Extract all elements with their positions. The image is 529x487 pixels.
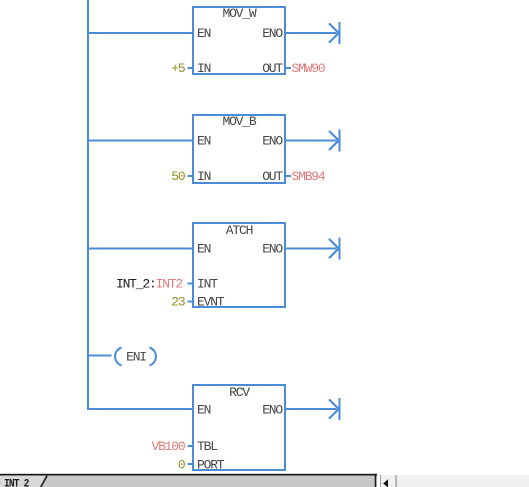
svg-text:PORT: PORT	[197, 458, 225, 473]
tab strip top border	[0, 474, 377, 476]
svg-text:ENO: ENO	[262, 134, 283, 149]
scrollbar divider line	[380, 475, 381, 487]
RCV TBL tick	[188, 445, 194, 447]
rung 2 wire	[87, 140, 193, 142]
MOV_W OUT tick	[286, 67, 291, 69]
rung 3 continuation arrow	[329, 239, 339, 258]
svg-text:SMW90: SMW90	[292, 61, 325, 76]
rung 4 wire	[87, 355, 112, 357]
scrollbar left arrow	[383, 479, 388, 487]
svg-text:ENO: ENO	[262, 26, 283, 41]
scrollbar track	[397, 475, 529, 487]
RCV PORT tick	[188, 463, 194, 465]
svg-text:OUT: OUT	[262, 169, 283, 184]
MOV_B IN tick	[188, 175, 194, 177]
svg-text:50: 50	[171, 169, 185, 184]
coil ENI left paren	[115, 348, 121, 366]
selected tab INT_2	[0, 476, 47, 487]
left power rail	[87, 0, 89, 410]
tab strip right border	[375, 474, 377, 487]
svg-text:ENO: ENO	[262, 242, 283, 257]
svg-text:ENI: ENI	[126, 350, 146, 365]
tab edge slash	[41, 476, 48, 487]
svg-text:INT: INT	[197, 277, 218, 292]
scrollbar left button	[381, 475, 395, 487]
instruction box U2 MOV_B	[193, 115, 285, 183]
ATCH ENO wire	[286, 248, 337, 250]
svg-text:IN: IN	[197, 169, 211, 184]
MOV_W IN tick	[188, 67, 194, 69]
rung 1 continuation arrow	[329, 23, 339, 42]
svg-text:ATCH: ATCH	[226, 223, 253, 238]
MOV_B OUT tick	[286, 175, 291, 177]
svg-text:0: 0	[178, 458, 185, 473]
svg-text:EN: EN	[197, 242, 211, 257]
rung 5 continuation arrow	[329, 399, 339, 418]
svg-text:ENO: ENO	[262, 403, 283, 418]
coil ENI right paren	[150, 348, 156, 366]
svg-text:EN: EN	[197, 134, 211, 149]
rung 5 wire	[87, 408, 193, 410]
svg-text:VB100: VB100	[151, 439, 184, 454]
svg-text:RCV: RCV	[229, 385, 250, 400]
rung 2 continuation arrow	[329, 131, 339, 150]
svg-text:IN: IN	[197, 61, 211, 76]
ATCH INT tick	[188, 283, 194, 285]
ATCH EVNT tick	[188, 301, 194, 303]
svg-text:EN: EN	[197, 403, 211, 418]
instruction box U1 MOV_W	[193, 7, 285, 74]
tab strip background	[0, 476, 375, 487]
svg-text:23: 23	[171, 295, 185, 310]
RCV ENO wire	[286, 408, 337, 410]
svg-text:OUT: OUT	[262, 61, 283, 76]
svg-text:MOV_B: MOV_B	[222, 114, 256, 129]
svg-text:TBL: TBL	[197, 439, 217, 454]
instruction box U4 RCV	[193, 385, 285, 470]
rung 3 wire	[87, 248, 193, 250]
svg-text:INT_2:INT2: INT_2:INT2	[116, 277, 182, 292]
rung 1 wire	[87, 32, 193, 34]
svg-text:EVNT: EVNT	[197, 295, 225, 310]
MOV_W ENO wire	[286, 32, 337, 34]
scrollbar button divider	[395, 475, 396, 487]
instruction box U3 ATCH	[193, 223, 285, 307]
MOV_B ENO wire	[286, 140, 337, 142]
svg-text:+5: +5	[171, 61, 185, 76]
svg-text:SMB94: SMB94	[292, 169, 326, 184]
svg-text:MOV_W: MOV_W	[222, 6, 256, 21]
svg-text:EN: EN	[197, 26, 211, 41]
svg-text:INT_2: INT_2	[4, 479, 29, 487]
